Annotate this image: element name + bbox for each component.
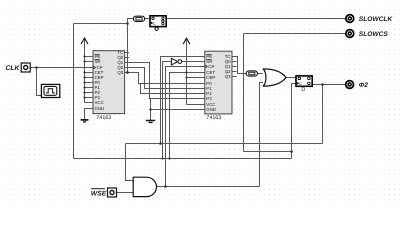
svg-text:C: C (153, 21, 156, 26)
svg-text:CEP: CEP (206, 75, 215, 80)
svg-text:Q3: Q3 (225, 74, 231, 79)
svg-text:C: C (299, 81, 302, 86)
svg-text:74163: 74163 (96, 115, 111, 121)
svg-text:VCC: VCC (95, 100, 104, 105)
svg-text:GND: GND (95, 106, 105, 111)
svg-text:GND: GND (206, 107, 216, 112)
svg-text:P3: P3 (206, 96, 212, 101)
svg-text:Q3: Q3 (117, 70, 123, 75)
svg-text:CLK: CLK (6, 65, 21, 72)
svg-text:WSE: WSE (91, 190, 107, 197)
svg-text:SLOWCS: SLOWCS (359, 31, 389, 38)
svg-text:D: D (301, 87, 305, 93)
svg-text:SLOWCLK: SLOWCLK (359, 16, 394, 23)
svg-text:Φ2: Φ2 (359, 82, 368, 89)
svg-text:74163: 74163 (206, 115, 221, 121)
svg-text:SR: SR (95, 59, 101, 64)
svg-text:CP: CP (208, 64, 214, 69)
